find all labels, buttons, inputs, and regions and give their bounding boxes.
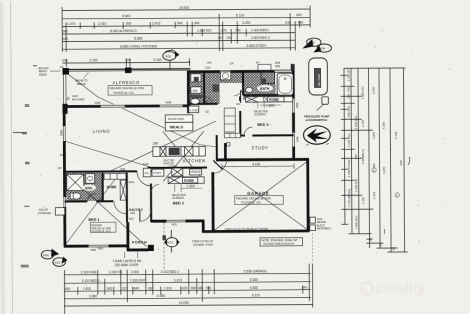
section marker 6/01 top middle	[163, 50, 180, 70]
svg-text:STUDY: STUDY	[251, 145, 268, 150]
gas meter labels	[317, 218, 331, 231]
svg-text:430: 430	[182, 286, 188, 290]
sink / hob dark unit	[169, 148, 180, 156]
svg-text:W04: W04	[295, 137, 299, 143]
svg-text:DP: DP	[60, 65, 64, 69]
laundry tub	[220, 72, 231, 80]
pressure pump label	[304, 114, 329, 122]
svg-text:5.470: 5.470	[382, 121, 386, 129]
svg-text:DP: DP	[60, 153, 64, 157]
svg-text:DP: DP	[230, 62, 234, 66]
svg-text:W05: W05	[295, 103, 299, 109]
bed2 north wall / kitchen bench wall	[148, 167, 207, 169]
kitchen mid bench row: pantry, cupboard, fridge	[152, 168, 202, 176]
svg-text:6.110: 6.110	[236, 13, 244, 17]
svg-text:4.930: 4.930	[157, 294, 165, 298]
top dim row texts	[62, 5, 303, 49]
solar storage note	[38, 208, 51, 215]
svg-text:3.290: 3.290	[242, 21, 250, 25]
svg-text:840: 840	[134, 287, 140, 291]
svg-text:.200: .200	[124, 58, 131, 62]
garage bottom wall	[203, 230, 309, 233]
svg-text:3.210 BED 2: 3.210 BED 2	[161, 270, 180, 274]
svg-text:3.110 BED 1: 3.110 BED 1	[82, 279, 100, 283]
svg-text:PAVING @ -110: PAVING @ -110	[114, 90, 134, 94]
bed2 west wall	[150, 184, 152, 222]
t-bar lintels note (bottom centre)	[113, 252, 142, 268]
svg-text:.790: .790	[234, 29, 241, 33]
ens/robe north wall	[63, 170, 137, 172]
svg-text:1.630 ENT: 1.630 ENT	[130, 279, 146, 283]
svg-text:.940: .940	[193, 21, 200, 25]
bed1 window W02	[89, 244, 109, 248]
svg-text:OP: OP	[58, 166, 62, 170]
svg-text:1.690 WC: 1.690 WC	[197, 29, 212, 33]
dashed line garage right	[311, 234, 313, 262]
garage left wall	[211, 172, 214, 231]
svg-text:2.100 ENS: 2.100 ENS	[81, 270, 98, 274]
bath window W06	[274, 69, 291, 73]
left wall window a	[62, 126, 66, 141]
svg-text:1.640 SILL: 1.640 SILL	[354, 115, 358, 129]
bed1 door arc	[114, 201, 127, 214]
svg-text:SLIDERS: SLIDERS	[254, 112, 266, 116]
svg-text:3.130: 3.130	[153, 58, 161, 62]
svg-text:14.930: 14.930	[179, 6, 189, 10]
labels above top wall	[205, 60, 281, 69]
svg-text:.90: .90	[392, 247, 396, 251]
svg-text:1.790 STUDY: 1.790 STUDY	[347, 159, 351, 177]
svg-text:SD: SD	[205, 110, 209, 114]
svg-text:1.340 SILL: 1.340 SILL	[354, 178, 358, 192]
small dim 300 near robe top	[117, 141, 159, 171]
svg-text:8/01: 8/01	[165, 54, 171, 58]
page fold line left	[11, 1, 13, 314]
svg-text:PIERS: PIERS	[39, 72, 47, 76]
alfresco beam (top)	[64, 68, 190, 71]
svg-text:ABOVE: ABOVE	[77, 82, 86, 86]
svg-text:4.530: 4.530	[250, 286, 258, 290]
garage ceiling note box	[235, 196, 284, 205]
svg-text:2.410: 2.410	[152, 21, 160, 25]
svg-text:øC: øC	[256, 60, 260, 64]
svg-text:1.800: 1.800	[187, 184, 195, 188]
svg-text:1.810: 1.810	[164, 286, 172, 290]
svg-text:6.110: 6.110	[252, 293, 260, 297]
svg-text:ROBE: ROBE	[107, 185, 118, 189]
svg-text:ROBE: ROBE	[269, 98, 280, 102]
step wall bed2 to garage	[202, 221, 205, 233]
svg-text:5.530: 5.530	[250, 278, 258, 282]
svg-text:210: 210	[122, 287, 128, 291]
svg-text:cotality: cotality	[375, 281, 426, 297]
svg-text:4.130: 4.130	[252, 162, 260, 166]
alfresco left edge posts line	[62, 74, 64, 105]
svg-text:590: 590	[206, 286, 212, 290]
svg-text:.900: .900	[125, 22, 132, 26]
svg-text:W08: W08	[166, 100, 172, 104]
ens vanity	[86, 174, 95, 184]
bottom dim texts	[65, 269, 308, 305]
bed3 west wall lower	[239, 111, 241, 136]
long valley diagonal alfresco to kitchen	[66, 72, 218, 148]
svg-text:ENS: ENS	[85, 186, 93, 190]
bed1 ceiling note box	[90, 222, 116, 233]
svg-text:.901: .901	[128, 216, 134, 220]
brick piers note	[38, 65, 64, 77]
svg-text:BATH: BATH	[260, 87, 270, 91]
right dimension block (rotated dims)	[340, 68, 407, 252]
svg-text:230 BWK OVER: 230 BWK OVER	[115, 263, 140, 267]
svg-text:3.45(B02.3): 3.45(B02.3)	[361, 149, 365, 164]
svg-text:.200: .200	[61, 59, 68, 63]
svg-text:ROBE: ROBE	[184, 179, 195, 183]
svg-text:LIVING: LIVING	[93, 129, 110, 134]
svg-text:1.000: 1.000	[131, 270, 139, 274]
hall west wall stub above entry	[147, 168, 149, 177]
svg-text:1.340 SILL: 1.340 SILL	[347, 133, 351, 147]
svg-text:1.740 (BRWK): 1.740 (BRWK)	[347, 189, 351, 208]
bath west wall	[242, 72, 244, 95]
svg-text:.940: .940	[176, 21, 183, 25]
svg-text:590: 590	[302, 286, 308, 290]
stray pen mark	[408, 157, 410, 165]
wc east wall	[203, 72, 205, 104]
ens south wall	[65, 200, 88, 202]
box above top wall (skylight label)	[258, 64, 271, 70]
AC unit box entry side	[143, 168, 151, 177]
window W08 b	[160, 104, 183, 108]
svg-text:(FLOOR @ -110): (FLOOR @ -110)	[91, 230, 110, 233]
svg-text:4.80x2.40 AUTO PANELIFT DOOR: 4.80x2.40 AUTO PANELIFT DOOR	[224, 227, 268, 231]
1.800 dims at robes	[181, 104, 282, 189]
window W08 a	[101, 104, 125, 108]
watermark Cotality	[361, 281, 426, 297]
wc fixtures	[191, 74, 201, 82]
hall cupboard near study	[224, 108, 235, 132]
svg-text:980: 980	[191, 286, 197, 290]
top wall	[187, 70, 294, 73]
svg-text:240: 240	[62, 37, 68, 41]
svg-text:1.030 HS: 1.030 HS	[109, 270, 123, 274]
bed2 door arc	[151, 184, 159, 192]
room name labels	[82, 79, 275, 244]
svg-text:.90: .90	[217, 36, 222, 40]
brick piers	[62, 68, 69, 75]
svg-text:BAYONET: BAYONET	[72, 97, 85, 101]
porch bottom wall	[127, 248, 149, 251]
svg-text:SOLAR HWU: SOLAR HWU	[168, 117, 184, 121]
svg-text:CHS: CHS	[205, 65, 211, 69]
svg-text:METERBOX: METERBOX	[317, 227, 331, 230]
kitchen X	[163, 131, 204, 181]
right wall	[292, 70, 295, 160]
exterior walls	[63, 70, 310, 251]
svg-text:DH3: DH3	[129, 180, 135, 184]
svg-text:6/03: 6/03	[309, 41, 315, 45]
svg-text:230 BWK OVER: 230 BWK OVER	[193, 243, 213, 247]
svg-text:KITCHEN: KITCHEN	[183, 158, 206, 163]
svg-text:W01: W01	[171, 222, 177, 226]
svg-text:GS: GS	[236, 102, 240, 106]
svg-text:A/C: A/C	[145, 171, 149, 175]
bath shower	[261, 72, 275, 84]
study window W04	[292, 133, 296, 147]
svg-text:.610: .610	[285, 21, 292, 25]
svg-text:FLOOR @ -110: FLOOR @ -110	[241, 200, 261, 204]
svg-text:2.800 BED 3: 2.800 BED 3	[251, 36, 270, 40]
alfresco pier dimension row	[62, 58, 190, 67]
svg-text:1.180 DP: 1.180 DP	[346, 69, 350, 81]
svg-text:5KL TANK: 5KL TANK	[317, 74, 321, 86]
svg-text:3.980: 3.980	[89, 294, 97, 298]
svg-text:6/02: 6/02	[43, 253, 49, 257]
svg-text:& RAINSWITCH: & RAINSWITCH	[306, 118, 327, 122]
kitchen bench top	[153, 146, 205, 156]
ens door arc	[87, 194, 95, 202]
north arrow	[303, 126, 330, 146]
svg-text:3.470: 3.470	[382, 166, 386, 174]
circled id marks on right dims	[372, 168, 376, 172]
left dimension column	[12, 66, 38, 267]
garage door arc	[213, 160, 227, 173]
svg-text:8.860: 8.860	[134, 37, 142, 41]
entry north wall stub	[148, 170, 151, 172]
rising valley diagonal living to meals	[110, 121, 216, 171]
left wall	[63, 106, 67, 247]
svg-text:5.530 GARAGE: 5.530 GARAGE	[244, 269, 268, 273]
water tank	[309, 58, 329, 111]
bath door arc	[235, 87, 244, 95]
svg-text:DH3: DH3	[143, 162, 149, 166]
svg-text:A26: A26	[130, 211, 135, 215]
bed2 front wall	[151, 219, 204, 222]
svg-text:1.470: 1.470	[372, 192, 376, 200]
svg-text:1.810: 1.810	[83, 287, 91, 291]
wc door arc	[204, 97, 212, 105]
svg-text:6/01: 6/01	[168, 241, 174, 245]
wc west wall (exterior, top block)	[187, 70, 190, 113]
ens shower	[67, 174, 84, 191]
svg-text:1.985.263: 1.985.263	[361, 86, 365, 99]
bed3 door arc	[241, 90, 255, 104]
bed2 window W01	[166, 219, 185, 223]
svg-text:900: 900	[107, 287, 113, 291]
wc south wall + linen	[188, 103, 217, 105]
hall cupboard horizontal row	[224, 133, 240, 138]
svg-text:1.800: 1.800	[266, 104, 274, 108]
svg-text:DOORS THROUGHOUT: DOORS THROUGHOUT	[264, 242, 295, 246]
ens toilet	[72, 193, 81, 199]
svg-text:480: 480	[198, 286, 204, 290]
svg-text:STORAGE: STORAGE	[38, 211, 51, 215]
svg-text:BED 3: BED 3	[257, 123, 268, 127]
bath tub	[277, 73, 293, 95]
svg-text:2.500 SILL: 2.500 SILL	[354, 215, 358, 229]
svg-text:W08: W08	[95, 101, 101, 105]
dashed grid line porch	[163, 222, 165, 270]
bed3 robe band	[246, 96, 293, 102]
svg-text:8.880 LIVING / KITCHEN: 8.880 LIVING / KITCHEN	[120, 44, 157, 48]
svg-text:BED 1: BED 1	[88, 218, 99, 222]
svg-text:WA2: WA2	[98, 246, 104, 250]
pantry small box	[227, 143, 230, 146]
svg-text:8.940: 8.940	[122, 14, 130, 18]
svg-text:6/01: 6/01	[55, 261, 61, 265]
robe south wall	[96, 200, 113, 202]
svg-text:L'1.512: L'1.512	[190, 108, 199, 112]
porch pier	[148, 245, 154, 251]
solar storage box	[55, 208, 64, 215]
svg-text:8.960 ALFRESCO: 8.960 ALFRESCO	[110, 29, 137, 33]
bottom dimension block	[64, 264, 313, 314]
svg-text:P'TRY: P'TRY	[154, 171, 162, 175]
svg-text:WM: WM	[193, 89, 198, 93]
ceiling / roof diagonals	[64, 71, 308, 247]
svg-text:430: 430	[65, 287, 71, 291]
svg-text:PORCH: PORCH	[132, 240, 147, 244]
bed1 bottom wall	[64, 244, 128, 247]
svg-text:1.185: 1.185	[361, 197, 365, 205]
note provide doors box	[260, 238, 303, 246]
svg-text:7.130: 7.130	[394, 131, 398, 139]
svg-text:3.470: 3.470	[372, 87, 376, 95]
svg-text:14.030: 14.030	[179, 301, 189, 305]
svg-text:W09: W09	[59, 130, 63, 136]
svg-text:3.210: 3.210	[174, 278, 182, 282]
interior walls	[63, 72, 294, 223]
svg-text:1.055: 1.055	[372, 132, 376, 140]
selected sliders labels	[171, 102, 268, 200]
svg-text:GARAGE: GARAGE	[247, 191, 269, 196]
kitchen east wall (to study wall)	[216, 135, 218, 160]
svg-text:940 2H0: 940 2H0	[347, 106, 351, 117]
svg-text:3.640 STUDY: 3.640 STUDY	[246, 44, 267, 48]
svg-text:940: 940	[298, 21, 304, 25]
gas meter boxes	[310, 217, 316, 223]
study bottom / garage top wall	[216, 158, 309, 161]
alfresco ceiling note box	[108, 85, 152, 95]
hatched tiled floors	[64, 72, 276, 201]
svg-text:.90: .90	[368, 237, 372, 241]
living leg from left wall	[64, 141, 152, 169]
left wall window b (bed1)	[63, 197, 67, 207]
beam to above note	[75, 72, 88, 85]
svg-text:.90: .90	[379, 243, 383, 247]
svg-text:1.185: 1.185	[361, 120, 365, 128]
svg-text:DB5: DB5	[275, 64, 281, 68]
bed1 east wall	[126, 173, 128, 222]
svg-text:.700: .700	[225, 36, 232, 40]
top dimension block	[62, 6, 310, 53]
entry front door arc	[140, 210, 152, 222]
svg-text:FRIDGE: FRIDGE	[191, 170, 201, 174]
svg-text:940: 940	[354, 154, 358, 159]
svg-text:ALFRESCO: ALFRESCO	[113, 80, 141, 85]
svg-text:930: 930	[148, 287, 154, 291]
linen cupboard	[189, 106, 199, 113]
bed3 west wall upper	[239, 96, 241, 100]
meals / solar hwu boxes	[165, 115, 193, 131]
svg-text:1.070: 1.070	[67, 22, 75, 26]
bed2 robe band	[168, 177, 204, 184]
bed1 robe interior	[104, 173, 126, 200]
laundry sliding door top	[220, 70, 231, 74]
svg-text:.300: .300	[152, 141, 159, 145]
study door arc	[244, 127, 252, 135]
svg-text:3.130: 3.130	[89, 58, 97, 62]
svg-text:240: 240	[62, 30, 68, 34]
svg-text:BED 2: BED 2	[173, 202, 184, 206]
svg-text:2.410: 2.410	[98, 22, 106, 26]
hall / living arc	[137, 172, 152, 187]
4.130 garage dim	[222, 162, 294, 170]
svg-text:.240: .240	[206, 61, 212, 65]
section markers 6/03 6/04 top right	[302, 38, 331, 53]
svg-text:.520: .520	[399, 160, 403, 166]
svg-text:.970: .970	[220, 29, 227, 33]
svg-text:2.400 BATH: 2.400 BATH	[251, 28, 269, 32]
bed1 / ens X	[65, 173, 147, 247]
svg-text:W02: W02	[91, 248, 97, 252]
garage right wall	[306, 159, 309, 232]
svg-text:WC: WC	[203, 100, 209, 104]
svg-text:SLIDERS: SLIDERS	[172, 196, 184, 200]
svg-text:940: 940	[296, 13, 302, 17]
bath vanity basin	[246, 87, 253, 92]
svg-text:CUPD: CUPD	[169, 165, 177, 169]
garage X	[214, 162, 307, 231]
windows (white gaps + thin lines)	[62, 69, 296, 248]
section marker 6/01 near porch	[162, 230, 179, 253]
svg-text:.940 .240: .940 .240	[347, 87, 351, 99]
bed3 window W05	[291, 99, 295, 113]
svg-text:MEALS: MEALS	[170, 125, 184, 129]
porch left wall	[126, 222, 129, 250]
gas bayonet note	[67, 94, 85, 101]
bath south wall	[243, 94, 293, 96]
section marker 6/02 6/01 bottom left	[41, 249, 67, 267]
svg-text:.300: .300	[119, 167, 126, 171]
bed3 / study divider	[240, 135, 244, 137]
svg-text:6/04: 6/04	[319, 47, 325, 51]
window labels	[57, 99, 300, 251]
living / alfresco wall	[63, 104, 190, 108]
ens / robe divider	[102, 173, 104, 200]
